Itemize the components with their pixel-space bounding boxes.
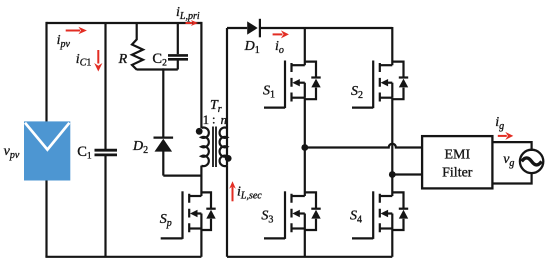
current arrow i_L,sec [229, 181, 236, 201]
wire: S4 drain up [391, 175, 393, 197]
svg-text:R: R [118, 52, 128, 67]
transformer Tr secondary winding [220, 127, 227, 166]
MOSFET S1 [264, 61, 321, 109]
current arrow i_o [273, 30, 289, 38]
wire: bridge mid upper to EMI [305, 144, 422, 148]
wire: primary bottom rail [45, 256, 201, 258]
wire: primary feed down [200, 22, 202, 128]
wire: secondary top rail right [260, 27, 392, 29]
polarity dot primary [196, 128, 203, 135]
svg-text:iL,sec: iL,sec [237, 185, 262, 202]
svg-text:Sp: Sp [160, 212, 172, 229]
wire: secondary feed up [226, 28, 228, 166]
svg-text:S2: S2 [351, 84, 363, 101]
MOSFET Sp [161, 191, 216, 239]
wire: S2 source down [391, 98, 393, 175]
svg-text:Filter: Filter [442, 165, 473, 180]
svg-text:vpv: vpv [4, 144, 20, 161]
EMI filter box [422, 136, 492, 188]
wire: S3 source down [304, 229, 306, 257]
wire: primary left rail [45, 22, 47, 257]
svg-text:D2: D2 [132, 139, 148, 156]
wire: S2 drain up [391, 27, 393, 65]
wire: D2 to primary [163, 175, 201, 177]
diode D1 [247, 19, 260, 38]
AC grid source v_g [520, 150, 543, 173]
label EMI Filter [442, 147, 473, 180]
junction dot left leg [301, 144, 308, 151]
svg-text:C2: C2 [152, 51, 167, 69]
capacitor C1 [95, 23, 118, 257]
current arrow i_g [498, 132, 514, 140]
wire: S1 source down [304, 98, 306, 149]
svg-text:ipv: ipv [57, 33, 71, 50]
junction dot right leg [389, 171, 396, 178]
current arrow i_pv [66, 27, 87, 34]
MOSFET S3 [264, 191, 321, 239]
current arrow i_L,pri [186, 20, 199, 26]
svg-text::: : [212, 113, 215, 127]
wire: S4 source down [391, 229, 393, 257]
svg-text:EMI: EMI [444, 147, 470, 162]
resistor R [132, 23, 143, 70]
MOSFET S4 [352, 191, 408, 239]
current arrow i_C1 [94, 50, 102, 72]
diode D2 [154, 68, 174, 175]
polarity dot secondary [225, 155, 232, 162]
svg-text:iC1: iC1 [76, 52, 92, 68]
wire: secondary bottom rail [227, 256, 392, 258]
wire: bridge mid lower to EMI [392, 173, 422, 175]
wire: S1 drain up [304, 27, 306, 65]
wire: secondary top rail left [227, 27, 247, 29]
svg-text:D1: D1 [244, 39, 260, 56]
wire: primary top rail [47, 22, 202, 24]
svg-text:S1: S1 [263, 84, 275, 101]
wire: EMI to grid top [492, 142, 531, 151]
svg-text:io: io [275, 39, 284, 56]
transformer Tr primary winding [201, 128, 208, 167]
svg-text:ig: ig [495, 115, 504, 132]
PV source v_pv [24, 121, 70, 180]
transformer core [213, 127, 216, 168]
wire: Sp source down [200, 229, 202, 257]
svg-text:vg: vg [503, 152, 514, 169]
wire: clamp bottom [137, 68, 178, 70]
wire: S3 drain up [304, 148, 306, 197]
capacitor C2 [168, 23, 188, 70]
svg-text:C1: C1 [77, 144, 92, 162]
svg-text:S4: S4 [350, 208, 362, 225]
wire: primary winding to Sp drain [200, 166, 202, 196]
svg-text:S3: S3 [261, 208, 273, 225]
wire: secondary feed down [226, 166, 228, 257]
svg-text:iL,pri: iL,pri [176, 5, 200, 22]
wire: EMI to grid bottom [492, 172, 531, 184]
svg-text:1: 1 [203, 113, 209, 127]
MOSFET S2 [352, 61, 408, 109]
